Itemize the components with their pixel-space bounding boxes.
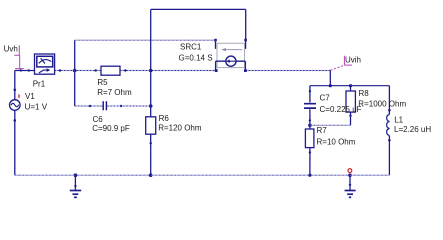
probe Uvh [14,45,23,70]
wire top loop [151,9,246,39]
wire rail SRC1 to probe node [246,70,331,72]
svg-text:R5: R5 [97,78,108,87]
terminal dots [14,69,391,187]
VCCS SRC1 body [217,43,245,67]
wire C6 row left [75,105,103,107]
voltmeter Pr1 [35,54,55,74]
svg-text:R7: R7 [317,126,328,135]
capacitor C7 [304,104,316,108]
SRC1 top pins [216,39,246,49]
wire rail R5 to SRC1 [120,70,216,72]
inductor L1 [387,115,390,136]
ground right [345,175,356,197]
resistor R8 [346,91,355,112]
probe Uvih [330,56,352,71]
svg-text:R6: R6 [159,114,170,123]
svg-text:C6: C6 [93,115,104,124]
capacitor C7 leads [309,86,311,126]
resistor R7 [305,129,314,148]
V1 polarity mark [18,94,20,97]
svg-text:Uvh: Uvh [4,45,18,54]
wire control tap [75,39,216,41]
resistor R6 [146,117,156,134]
wire top bus right block [310,85,390,87]
resistor R7 leads [309,125,311,175]
wire node B column upper [150,9,152,116]
svg-text:G=0.14 S: G=0.14 S [179,53,213,62]
svg-text:L=2.26 uH: L=2.26 uH [394,125,431,134]
wire rail dash overlay [55,71,331,107]
svg-text:R=10 Ohm: R=10 Ohm [317,137,356,146]
wire R6 bottom lead [150,134,152,175]
wire C6 row right [107,105,151,107]
node marker red ring [348,169,352,173]
inductor L1 leads [388,86,390,176]
svg-text:R=7 Ohm: R=7 Ohm [97,88,132,97]
capacitor C6 [103,101,106,110]
svg-text:L1: L1 [394,115,403,124]
svg-text:R=1000 Ohm: R=1000 Ohm [358,100,406,109]
svg-text:C=0.225 uF: C=0.225 uF [320,105,362,114]
svg-text:Pr1: Pr1 [33,79,46,88]
svg-text:U=1 V: U=1 V [25,102,48,111]
svg-text:R8: R8 [359,89,370,98]
svg-text:V1: V1 [25,92,35,101]
wire node A vertical [74,40,76,106]
resistor R5 [101,66,120,75]
wire drop to right block [329,71,331,86]
voltage source V1 [10,100,21,111]
resistor R8 leads [350,86,352,126]
wire rail dash overlay light [15,40,390,175]
SRC1 control arrow [224,49,242,51]
SRC1 leads and legs [216,61,246,70]
ground left [70,175,81,197]
SRC1 source circle [226,56,236,66]
svg-text:C=90.9 pF: C=90.9 pF [92,124,130,133]
svg-text:C7: C7 [320,93,331,102]
svg-text:Uvih: Uvih [345,56,361,65]
wire ground rail [15,174,390,176]
wire V1 bottom lead [14,110,16,175]
wire rail meter to R5 [55,70,101,72]
svg-text:R=120 Ohm: R=120 Ohm [158,123,202,132]
svg-text:SRC1: SRC1 [180,43,202,52]
wire bottom bus right block [310,124,351,126]
wire V1 top lead [14,71,16,100]
wire rail corner to meter [15,70,35,72]
